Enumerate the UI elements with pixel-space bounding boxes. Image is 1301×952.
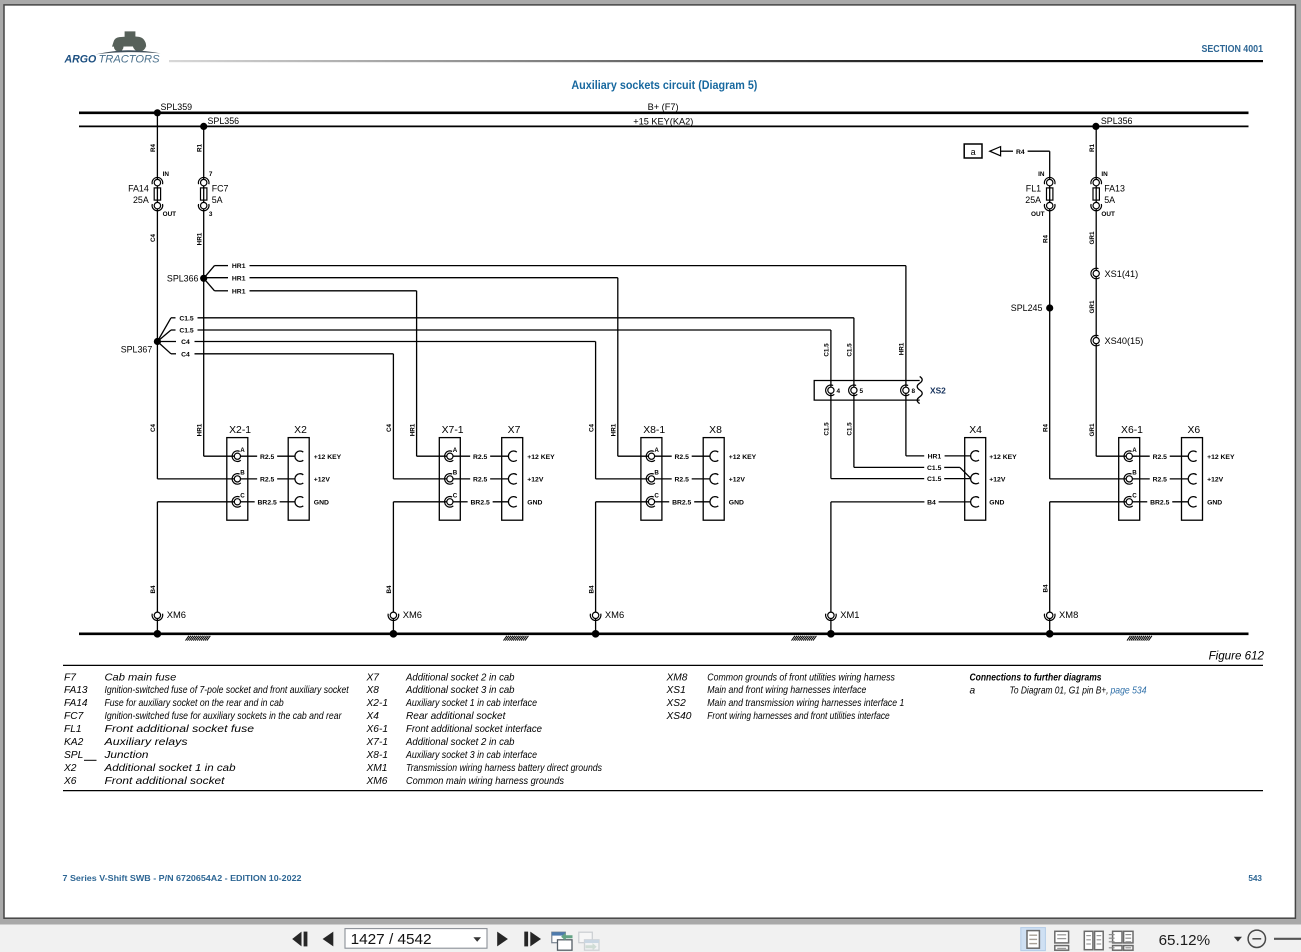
svg-text:A: A (240, 447, 245, 454)
svg-text:Auxiliary socket 3 in cab inte: Auxiliary socket 3 in cab interface (405, 750, 537, 761)
svg-text:Additional socket 1 in cab: Additional socket 1 in cab (103, 763, 236, 774)
svg-text:X7: X7 (366, 672, 380, 683)
bus line B+ (79, 112, 1249, 115)
wire C1.5 branch through XS2 pin 5 to X4 (157, 315, 971, 478)
bus line +15 KEY (79, 125, 1249, 127)
svg-text:FA13: FA13 (64, 685, 88, 696)
svg-text:A: A (1132, 447, 1137, 454)
legend table (63, 672, 904, 787)
fuse FL1 25A (1025, 171, 1055, 218)
svg-text:C4: C4 (150, 233, 157, 242)
wire C4 branch to X7-1 pin B (157, 342, 447, 479)
svg-text:GND: GND (1207, 500, 1222, 507)
svg-text:Additional socket 3 in cab: Additional socket 3 in cab (405, 685, 515, 696)
svg-text:A: A (654, 447, 659, 454)
svg-text:C4: C4 (181, 339, 190, 346)
svg-text:XS40(15): XS40(15) (1105, 336, 1144, 346)
svg-text:C4: C4 (386, 423, 393, 432)
ground bus junction dots (154, 630, 162, 638)
svg-text:+12 KEY: +12 KEY (527, 454, 555, 461)
wire C4 branch to X8-1 pin B (157, 339, 648, 479)
svg-text:SPL245: SPL245 (1011, 303, 1043, 313)
svg-text:+12 KEY: +12 KEY (314, 454, 342, 461)
svg-text:FA14: FA14 (128, 184, 149, 194)
svg-text:F7: F7 (64, 672, 76, 683)
svg-text:Ignition-switched fuse of 7-po: Ignition-switched fuse of 7-pole socket … (105, 685, 350, 696)
off-page connector a (To Diagram 01) (964, 144, 1049, 158)
svg-text:X4: X4 (366, 711, 380, 722)
connector X8 (703, 425, 756, 520)
svg-text:C1.5: C1.5 (179, 328, 194, 335)
svg-text:OUT: OUT (163, 211, 177, 218)
svg-text:SPL356: SPL356 (1101, 116, 1133, 126)
connector X2-1 (227, 425, 251, 520)
svg-text:Front additional socket: Front additional socket (105, 776, 226, 787)
node SPL356 right (1092, 123, 1099, 130)
wire R1/GR1 from SPL356 through fuse FA13 to X6-1 pin A (1095, 126, 1097, 456)
legend top rule (63, 664, 1263, 666)
svg-text:OUT: OUT (1031, 211, 1045, 218)
toolbar two page layout button (1084, 931, 1103, 949)
svg-text:BR2.5: BR2.5 (258, 499, 277, 506)
connector X4 (965, 425, 1017, 520)
svg-text:B4: B4 (150, 585, 157, 594)
svg-text:5A: 5A (212, 195, 223, 205)
svg-text:R2.5: R2.5 (260, 477, 275, 484)
svg-text:X6: X6 (1187, 425, 1200, 436)
svg-text:GND: GND (314, 500, 329, 507)
svg-text:XM8: XM8 (1059, 609, 1078, 620)
svg-text:X6-1: X6-1 (1121, 425, 1143, 436)
svg-text:+12 KEY: +12 KEY (989, 454, 1017, 461)
svg-text:X4: X4 (969, 425, 982, 436)
svg-text:65.12%: 65.12% (1159, 933, 1211, 949)
svg-text:543: 543 (1248, 874, 1262, 883)
svg-text:25A: 25A (133, 195, 149, 205)
svg-text:R2.5: R2.5 (1153, 477, 1168, 484)
svg-text:Main and transmission wiring h: Main and transmission wiring harnesses i… (707, 698, 904, 709)
svg-text:BR2.5: BR2.5 (471, 499, 490, 506)
connector X7-1 (439, 425, 463, 520)
connector X8-1 (641, 425, 665, 520)
svg-text:B+ (F7): B+ (F7) (648, 102, 679, 112)
svg-text:X8: X8 (709, 425, 722, 436)
fuse FA13 5A (1091, 171, 1125, 218)
svg-text:XM6: XM6 (167, 609, 186, 620)
svg-text:+12 KEY: +12 KEY (1207, 454, 1235, 461)
svg-text:C: C (453, 493, 458, 500)
svg-text:Additional socket 2 in cab: Additional socket 2 in cab (405, 737, 515, 748)
wire HR1 branch to X4 (top) (204, 263, 906, 456)
svg-text:7: 7 (209, 171, 213, 178)
svg-text:B4: B4 (386, 585, 393, 594)
svg-text:C1.5: C1.5 (847, 422, 854, 436)
toolbar two page continuous layout button (1109, 931, 1133, 950)
svg-text:SPL367: SPL367 (121, 344, 153, 354)
wires X6-1 to X6 with size labels (1132, 454, 1188, 507)
svg-text:XS1(41): XS1(41) (1105, 269, 1139, 279)
svg-text:R4: R4 (1043, 423, 1050, 432)
toolbar zoom out control (1248, 930, 1265, 947)
toolbar next page button (497, 932, 508, 947)
wires X7-1 to X7 with size labels (453, 454, 509, 507)
svg-text:C: C (240, 493, 245, 500)
node SPL245 (1046, 304, 1053, 311)
svg-text:B4: B4 (1043, 584, 1050, 593)
ground pin XM8 (1044, 609, 1078, 620)
svg-text:XS1: XS1 (666, 685, 686, 696)
svg-text:3: 3 (209, 211, 213, 218)
svg-text:R2.5: R2.5 (473, 477, 488, 484)
svg-text:FC7: FC7 (64, 711, 84, 722)
toolbar page number box (345, 929, 487, 949)
svg-text:R1: R1 (1089, 143, 1096, 152)
svg-text:FA13: FA13 (1104, 184, 1125, 194)
svg-text:GND: GND (527, 500, 542, 507)
svg-text:FL1: FL1 (64, 724, 82, 735)
svg-text:Additional socket 2 in cab: Additional socket 2 in cab (405, 672, 515, 683)
svg-text:SPL359: SPL359 (161, 102, 193, 112)
svg-text:A: A (453, 447, 458, 454)
svg-text:B: B (654, 470, 659, 477)
svg-text:KA2: KA2 (64, 737, 84, 748)
connector XS2 (814, 376, 946, 403)
toolbar continuous layout button (1055, 931, 1069, 950)
svg-text:BR2.5: BR2.5 (672, 499, 691, 506)
svg-text:Ignition-switched fuse for aux: Ignition-switched fuse for auxiliary soc… (105, 711, 343, 722)
svg-text:a: a (970, 685, 976, 696)
svg-text:GND: GND (729, 500, 744, 507)
SPL junction underscore (84, 759, 97, 761)
svg-text:R1: R1 (197, 143, 204, 152)
svg-text:X2-1: X2-1 (366, 698, 389, 709)
svg-text:B: B (240, 470, 245, 477)
wires X8-1 to X8 with size labels (655, 454, 711, 507)
svg-text:Auxiliary relays: Auxiliary relays (103, 737, 187, 748)
svg-text:C1.5: C1.5 (927, 476, 942, 483)
svg-text:X7-1: X7-1 (442, 425, 464, 436)
svg-text:GR1: GR1 (1089, 300, 1096, 313)
svg-text:HR1: HR1 (232, 263, 246, 270)
svg-text:a: a (971, 147, 976, 157)
toolbar first page button (292, 932, 307, 947)
svg-text:XS2: XS2 (666, 698, 687, 709)
svg-text:XS40: XS40 (666, 711, 692, 722)
svg-text:ARGO: ARGO (64, 54, 98, 66)
svg-text:C: C (654, 493, 659, 500)
svg-text:R4: R4 (1043, 234, 1050, 243)
svg-text:+12V: +12V (729, 477, 746, 484)
svg-text:R2.5: R2.5 (675, 477, 690, 484)
svg-text:Cab main fuse: Cab main fuse (105, 672, 177, 683)
svg-text:C4: C4 (150, 423, 157, 432)
svg-text:+12V: +12V (1207, 477, 1224, 484)
svg-text:R2.5: R2.5 (473, 454, 488, 461)
svg-text:IN: IN (163, 171, 170, 178)
svg-text:To Diagram 01, G1 pin B+,: To Diagram 01, G1 pin B+, (1010, 685, 1109, 696)
svg-text:Front additional socket fuse: Front additional socket fuse (105, 724, 255, 735)
connector X7 (502, 425, 555, 520)
wire from X8-1 pin C to XM6 ground (596, 501, 649, 503)
svg-text:+12V: +12V (314, 477, 331, 484)
svg-text:HR1: HR1 (611, 423, 618, 436)
svg-text:OUT: OUT (1101, 211, 1115, 218)
svg-text:HR1: HR1 (928, 454, 942, 461)
svg-text:XM8: XM8 (666, 672, 688, 683)
svg-text:7 Series V-Shift SWB - P/N 672: 7 Series V-Shift SWB - P/N 6720654A2 - E… (63, 874, 302, 883)
svg-text:Junction: Junction (103, 750, 149, 761)
svg-text:X7: X7 (508, 425, 521, 436)
svg-text:X7-1: X7-1 (366, 737, 389, 748)
svg-text:SPL366: SPL366 (167, 274, 199, 284)
svg-text:Main and front wiring harnesse: Main and front wiring harnesses interfac… (707, 685, 866, 696)
svg-text:C1.5: C1.5 (927, 465, 942, 472)
ground hatching marks (186, 636, 1152, 641)
svg-text:Common main wiring harness gro: Common main wiring harness grounds (406, 776, 564, 787)
svg-text:IN: IN (1038, 171, 1045, 178)
node SPL359 (154, 109, 161, 116)
node SPL366 (200, 275, 207, 282)
svg-text:+12V: +12V (989, 477, 1006, 484)
toolbar zoom dropdown caret (1234, 937, 1242, 942)
wire HR1 branch to X7-1 (204, 278, 447, 456)
wire HR1 branch to X8-1 (204, 275, 649, 456)
wire HR1 into X4 pin +12 KEY (906, 454, 971, 461)
wire from X7-1 pin C to XM6 ground (393, 501, 447, 503)
ground pin XM1 (826, 609, 860, 620)
svg-text:Rear additional socket: Rear additional socket (406, 711, 507, 722)
svg-text:Auxiliary sockets circuit (Dia: Auxiliary sockets circuit (Diagram 5) (571, 78, 757, 92)
svg-text:4: 4 (837, 388, 841, 395)
svg-text:SPL: SPL (64, 750, 83, 761)
svg-text:B4: B4 (588, 585, 595, 594)
wire R4 from connector a through FL1 to X6-1 pin B (1049, 151, 1051, 479)
svg-text:FC7: FC7 (212, 184, 229, 194)
svg-text:SPL356: SPL356 (208, 116, 240, 126)
svg-text:R4: R4 (1016, 149, 1025, 156)
svg-text:R2.5: R2.5 (1153, 454, 1168, 461)
wires X2-1 to X2 with size labels (240, 454, 295, 507)
svg-text:Connections to further diagram: Connections to further diagrams (970, 672, 1102, 683)
svg-text:TRACTORS: TRACTORS (99, 54, 160, 66)
toolbar last page button (524, 932, 541, 947)
svg-text:HR1: HR1 (197, 423, 204, 436)
svg-text:R4: R4 (150, 143, 157, 152)
svg-text:+12V: +12V (527, 477, 544, 484)
connector X6 (1182, 425, 1235, 520)
svg-text:X8-1: X8-1 (366, 750, 389, 761)
wire from X6-1 pin C to XM8 ground (1050, 501, 1127, 503)
svg-text:GND: GND (989, 500, 1004, 507)
ground pin XM6 (right) (590, 609, 624, 620)
svg-text:X2-1: X2-1 (229, 425, 251, 436)
svg-text:X2: X2 (294, 425, 307, 436)
svg-text:Front additional socket interf: Front additional socket interface (406, 724, 542, 735)
pdf viewer toolbar (0, 925, 1301, 952)
ground pin XM6 (middle) (388, 609, 422, 620)
svg-text:Common grounds of front utilit: Common grounds of front utilities wiring… (707, 672, 895, 683)
svg-text:+15 KEY(KA2): +15 KEY(KA2) (633, 117, 693, 127)
ground pin XM6 (left) (152, 609, 186, 620)
Argo Tractors logo (64, 31, 161, 65)
svg-text:R2.5: R2.5 (260, 454, 275, 461)
svg-text:C1.5: C1.5 (824, 422, 831, 436)
svg-text:Front wiring harnesses and fro: Front wiring harnesses and front utiliti… (707, 711, 890, 722)
svg-text:FA14: FA14 (64, 698, 88, 709)
svg-text:C1.5: C1.5 (824, 343, 831, 357)
fuse FA14 25A (128, 171, 176, 218)
svg-text:R2.5: R2.5 (675, 454, 690, 461)
svg-text:Transmission wiring harness ba: Transmission wiring harness battery dire… (406, 763, 602, 774)
svg-text:C1.5: C1.5 (847, 343, 854, 357)
svg-text:25A: 25A (1025, 195, 1041, 205)
ground bus line (79, 632, 1249, 635)
svg-text:GR1: GR1 (1089, 231, 1096, 244)
wire R4/C4 from SPL359 through fuse FA14 down to X2-1 pin B (156, 113, 158, 479)
fuse FC7 5A (198, 171, 228, 218)
toolbar previous view button (552, 932, 573, 950)
svg-text:B: B (1132, 470, 1137, 477)
svg-text:5A: 5A (1104, 195, 1115, 205)
wire B4 from X4 GND to XM1 ground (831, 500, 971, 634)
svg-text:Figure 612: Figure 612 (1209, 650, 1265, 663)
toolbar single page layout button (selected) (1021, 928, 1046, 951)
svg-text:XM1: XM1 (840, 609, 859, 620)
connections to further diagrams (970, 672, 1147, 696)
svg-text:XS2: XS2 (930, 385, 946, 395)
svg-text:page 534: page 534 (1110, 685, 1147, 696)
toolbar zoom slider track (1274, 938, 1301, 940)
svg-text:5: 5 (860, 388, 864, 395)
svg-text:HR1: HR1 (232, 289, 246, 296)
svg-text:X6-1: X6-1 (366, 724, 389, 735)
pin XS40(15) (1091, 335, 1143, 346)
wire BR2.5/B4 from X2-1 pin C to XM6 ground (157, 501, 234, 503)
svg-text:C1.5: C1.5 (179, 315, 194, 322)
svg-text:GR1: GR1 (1089, 423, 1096, 436)
svg-text:8: 8 (912, 388, 916, 395)
svg-text:HR1: HR1 (197, 232, 204, 245)
legend bottom rule (63, 790, 1263, 792)
svg-text:XM6: XM6 (403, 609, 422, 620)
svg-text:B4: B4 (927, 500, 936, 507)
svg-text:BR2.5: BR2.5 (1150, 499, 1169, 506)
svg-text:XM6: XM6 (366, 776, 388, 787)
wire C1.5 branch through XS2 pin 4 to X4 (157, 328, 971, 484)
toolbar next view button (disabled) (579, 932, 599, 950)
svg-text:1427 / 4542: 1427 / 4542 (351, 932, 432, 948)
svg-text:X8-1: X8-1 (643, 425, 665, 436)
svg-text:XM6: XM6 (605, 609, 624, 620)
svg-text:HR1: HR1 (232, 275, 246, 282)
svg-text:HR1: HR1 (899, 342, 906, 355)
svg-text:Fuse for auxiliary socket on t: Fuse for auxiliary socket on the rear an… (105, 698, 284, 709)
wire R1/HR1 from SPL356 through fuse FC7 down to X2-1 pin A (203, 126, 205, 456)
svg-text:Auxiliary socket 1 in cab inte: Auxiliary socket 1 in cab interface (405, 698, 537, 709)
svg-text:X6: X6 (63, 776, 77, 787)
svg-text:X8: X8 (366, 685, 380, 696)
toolbar previous page button (323, 932, 334, 947)
pin XS1(41) (1091, 268, 1138, 279)
svg-text:+12 KEY: +12 KEY (729, 454, 757, 461)
svg-text:C4: C4 (181, 351, 190, 358)
svg-text:IN: IN (1101, 171, 1108, 178)
svg-text:B: B (453, 470, 458, 477)
svg-text:FL1: FL1 (1026, 184, 1041, 194)
svg-text:SECTION 4001: SECTION 4001 (1202, 44, 1264, 55)
svg-text:HR1: HR1 (409, 423, 416, 436)
svg-text:X2: X2 (63, 763, 77, 774)
svg-text:XM1: XM1 (366, 763, 388, 774)
svg-text:C4: C4 (588, 423, 595, 432)
svg-text:C: C (1132, 493, 1137, 500)
connector X2 (288, 425, 341, 520)
connector X6-1 (1119, 425, 1143, 520)
node SPL356 left (200, 123, 207, 130)
node SPL367 (154, 338, 161, 345)
